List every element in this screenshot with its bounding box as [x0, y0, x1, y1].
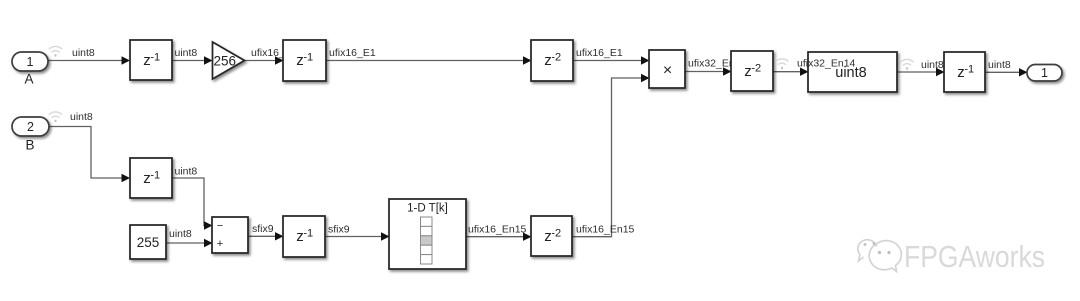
wire delay Z7 to lookup table	[325, 232, 390, 240]
svg-text:uint8: uint8	[175, 166, 198, 178]
svg-text:−: −	[217, 220, 223, 232]
delay block Z4	[731, 51, 773, 91]
delay block Z8	[531, 216, 572, 256]
svg-text:256: 256	[214, 54, 237, 69]
svg-text:1: 1	[27, 55, 34, 69]
svg-text:sfix9: sfix9	[328, 224, 350, 236]
svg-text:1-D T[k]: 1-D T[k]	[407, 203, 448, 215]
wire delay Z6 to sum minus input	[172, 178, 213, 230]
wire constant 255 to sum plus input	[166, 239, 213, 247]
delay block Z2	[283, 40, 326, 81]
wifi badge port2	[49, 112, 62, 122]
wifi badge port1	[49, 46, 62, 56]
svg-text:-1: -1	[303, 52, 313, 64]
product block	[649, 50, 685, 88]
wire delay Z4 to convert block	[773, 68, 809, 76]
svg-text:+: +	[217, 238, 223, 250]
svg-text:-2: -2	[551, 52, 561, 64]
svg-text:ufix16_En15: ufix16_En15	[576, 223, 635, 235]
lookup table block	[389, 199, 466, 269]
svg-text:-2: -2	[551, 228, 561, 240]
svg-text:-1: -1	[150, 52, 160, 64]
wifi badge after convert	[900, 59, 913, 69]
delay block Z7	[283, 216, 325, 257]
inport 2	[12, 117, 49, 136]
svg-text:uint8: uint8	[921, 59, 944, 71]
svg-text:ufix16_En15: ufix16_En15	[468, 223, 527, 235]
wire delay Z2 to delay Z3	[326, 56, 532, 64]
outport 1	[1027, 65, 1062, 82]
svg-text:-2: -2	[751, 63, 761, 75]
wire delay Z3 to product top input	[573, 56, 650, 64]
wire convert to delay Z5	[897, 68, 945, 76]
wire delay Z8 to product bottom input	[572, 74, 650, 237]
watermark wechat icon	[858, 240, 902, 272]
gain block 256	[213, 42, 245, 79]
svg-text:ufix16_E1: ufix16_E1	[329, 47, 376, 59]
svg-text:1: 1	[1041, 66, 1048, 80]
svg-text:-1: -1	[303, 228, 313, 240]
delay block Z5	[944, 52, 985, 92]
svg-text:uint8: uint8	[988, 59, 1011, 71]
svg-text:B: B	[25, 138, 34, 153]
wire lookup table to delay Z8	[466, 233, 532, 241]
wire delay Z5 to outport 1	[985, 68, 1028, 76]
svg-text:FPGAworks: FPGAworks	[904, 239, 1045, 274]
delay block Z1	[130, 40, 172, 80]
sum block	[212, 217, 248, 253]
wire sum to delay Z7	[248, 232, 284, 240]
convert block uint8	[808, 52, 897, 92]
wire delay Z1 to gain	[172, 56, 213, 64]
svg-text:-1: -1	[150, 170, 160, 182]
wifi badge after Z4	[775, 59, 788, 69]
wire product to delay Z4	[685, 67, 732, 75]
delay block Z3	[531, 40, 573, 81]
svg-text:uint8: uint8	[72, 47, 95, 59]
svg-text:×: ×	[663, 62, 672, 79]
svg-text:-1: -1	[964, 64, 974, 76]
svg-text:2: 2	[27, 120, 34, 134]
inport 1	[12, 52, 48, 71]
svg-text:A: A	[24, 72, 33, 87]
wire inport2 to delay Z6	[48, 127, 130, 183]
wire inport1 to delay Z1	[47, 56, 130, 64]
constant block 255	[130, 225, 166, 259]
svg-text:ufix16_E1: ufix16_E1	[576, 47, 623, 59]
svg-text:sfix9: sfix9	[252, 223, 274, 235]
svg-text:ufix32_En14: ufix32_En14	[797, 58, 856, 70]
svg-text:uint8: uint8	[169, 228, 192, 240]
delay block Z6	[130, 158, 172, 198]
svg-text:uint8: uint8	[70, 111, 93, 123]
svg-text:uint8: uint8	[175, 47, 198, 59]
wire gain to delay Z2	[244, 56, 284, 64]
svg-text:255: 255	[137, 235, 160, 250]
